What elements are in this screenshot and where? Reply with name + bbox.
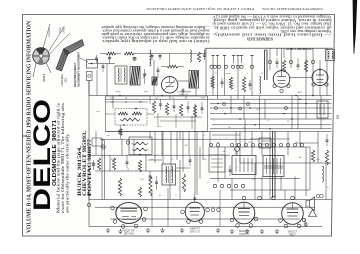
dial drum legs xyxy=(33,63,36,77)
vibrator lead xyxy=(305,147,307,196)
rectifier tube V7 xyxy=(282,203,304,225)
fuse symbol xyxy=(316,194,320,198)
electrolytic capacitor C9 xyxy=(235,147,240,152)
IF tube V2 6SK7 xyxy=(273,71,290,88)
svg-text:ADJ.: ADJ. xyxy=(65,77,68,82)
main bus wires xyxy=(89,95,332,97)
screen resistor R16 xyxy=(282,60,285,72)
mid band wires xyxy=(100,138,260,140)
AVC resistor R9 xyxy=(229,77,232,90)
wire V1 plate to T3 xyxy=(178,80,189,82)
capacitor C20 xyxy=(149,176,152,177)
grid resistor R3 xyxy=(167,65,178,68)
capacitor C24 xyxy=(187,107,190,108)
svg-text:SCHEMATIC DATA: SCHEMATIC DATA xyxy=(247,37,273,42)
wire vertical left pair xyxy=(96,70,98,96)
short link wires xyxy=(212,134,240,136)
grid capacitor C17 xyxy=(297,65,300,66)
second IF transformer box xyxy=(326,50,335,61)
rail pin xyxy=(87,203,90,206)
svg-text:Voltages measured to chassis w: Voltages measured to chassis with a VTVM… xyxy=(212,15,332,19)
svg-text:OUTPUT: OUTPUT xyxy=(239,233,249,236)
capacitor C14 xyxy=(159,56,162,57)
svg-text:10K: 10K xyxy=(201,98,205,100)
connector pin terminals xyxy=(211,54,214,56)
wire V2 to V3 xyxy=(290,77,312,79)
bypass capacitor C6 xyxy=(221,82,224,83)
field coil choke xyxy=(322,166,323,182)
T4 core lines xyxy=(264,165,283,167)
switch wafer circle xyxy=(126,141,129,144)
bus pin circles xyxy=(215,107,218,110)
output transformer T4 xyxy=(263,156,284,177)
buffer capacitor C8 xyxy=(229,170,232,171)
V6 pins xyxy=(230,218,234,222)
antenna coil T1 xyxy=(115,66,127,84)
resistor R23 xyxy=(179,104,182,116)
svg-text:(white) in one half turn of ad: (white) in one half turn of adjusting ty… xyxy=(101,39,209,43)
svg-text:Dial lamps: two No. 51. Pilot: Dial lamps: two No. 51. Pilot No. 55 — 1… xyxy=(212,22,331,26)
grid cap dots xyxy=(281,69,282,70)
enclosure top inner wire xyxy=(106,101,148,103)
callout arrow xyxy=(80,58,88,62)
svg-text:out: out xyxy=(252,178,255,181)
dial cable callout lines xyxy=(49,27,65,52)
upper mid pins row xyxy=(209,143,212,146)
svg-text:TREBLE: TREBLE xyxy=(44,73,46,82)
mid row pins xyxy=(213,184,216,187)
interstage transformer T5 xyxy=(162,164,176,185)
det tube V3 6SQ7 xyxy=(312,70,328,86)
svg-text:ALIGNMENT ADJUSTMENT: ALIGNMENT ADJUSTMENT xyxy=(76,52,80,87)
resistor R18 xyxy=(97,158,100,170)
grid resistor R13 xyxy=(118,178,121,196)
dial lamp I1 xyxy=(101,145,105,149)
capacitor C18 xyxy=(92,164,95,165)
left rail wire xyxy=(88,81,90,227)
power triangle xyxy=(309,210,317,217)
resistor R2 xyxy=(124,52,134,55)
output tube V6 xyxy=(233,202,255,224)
svg-text:1M: 1M xyxy=(184,145,187,147)
svg-text:HIGH FREQUENCY: HIGH FREQUENCY xyxy=(73,62,77,87)
audio tube V4 6SQ7 DET-AVC xyxy=(116,203,142,224)
svg-text:— Indicates lead from tone coi: — Indicates lead from tone coil assembly… xyxy=(212,32,333,36)
dial lamp pair wires xyxy=(101,140,103,200)
resistor R4 xyxy=(118,112,128,115)
svg-text:sealed lead to ground and a 4: sealed lead to ground and a 4 ohm speake… xyxy=(101,29,209,33)
svg-text:33K: 33K xyxy=(111,159,115,161)
resistor R19 xyxy=(112,158,115,170)
svg-text:47K: 47K xyxy=(110,98,114,100)
wire top bus xyxy=(140,53,206,55)
page fold tick xyxy=(23,135,28,137)
capacitor C23 xyxy=(173,106,176,107)
V4 pins xyxy=(111,206,115,210)
capacitor C19 xyxy=(126,162,129,163)
wire antenna to coil xyxy=(98,63,116,65)
enclosure inner wires xyxy=(154,116,202,118)
chassis bracket hatched upper xyxy=(64,40,85,56)
vibrator box xyxy=(209,155,225,172)
chassis bracket hatched lower xyxy=(56,49,69,71)
svg-text:Voltmeter readings may vary ±2: Voltmeter readings may vary ±20%. xyxy=(279,29,331,33)
svg-text:at speaker voltage with 12 vol: at speaker voltage with 12 volt input to… xyxy=(101,36,209,40)
svg-text:OLDSMOBILE 980171: OLDSMOBILE 980171 xyxy=(285,47,312,51)
RF coil L3 xyxy=(190,50,191,62)
oscillator coil L2 xyxy=(260,76,261,94)
grid leak R26 xyxy=(182,174,185,192)
bus junction dots xyxy=(224,113,226,115)
lower band wires xyxy=(89,199,332,201)
svg-text:are practically the same elect: are practically the same electrically. xyxy=(65,133,70,213)
volume box leads xyxy=(106,113,116,115)
coax shielded lead xyxy=(264,50,266,80)
heavy lead pair xyxy=(272,131,274,198)
V2 pins xyxy=(273,84,276,87)
resistor R6 xyxy=(120,118,140,121)
vertical wires xyxy=(112,96,114,109)
svg-text:ant: ant xyxy=(96,110,99,113)
right resistor R27 xyxy=(325,150,328,165)
gang junction node A xyxy=(134,58,136,60)
interstage resistor R25 xyxy=(149,176,152,196)
svg-text:gang: gang xyxy=(116,91,122,93)
antenna jack xyxy=(87,72,93,81)
power transformer T6 xyxy=(232,156,256,175)
IF transformer T3 hatched xyxy=(189,71,199,89)
IF amp resistor R8 xyxy=(211,76,214,89)
cathode resistor R14 xyxy=(138,187,141,197)
spark plate capacitor C1 xyxy=(102,66,105,67)
inter-tube pins xyxy=(258,196,262,200)
bypass capacitor C7 xyxy=(249,84,252,85)
svg-text:6SK7 GT: 6SK7 GT xyxy=(190,230,200,233)
svg-text:1m: 1m xyxy=(203,159,206,161)
svg-text:RECT: RECT xyxy=(289,233,296,236)
resistor R1 xyxy=(106,52,116,55)
small hatched core xyxy=(152,77,157,85)
oscillator trimmer C15 xyxy=(95,58,98,59)
resistor R22 xyxy=(165,103,168,115)
svg-text:all condenser and resistor val: all condenser and resistor values with s… xyxy=(212,25,331,29)
IF amp tube V5 xyxy=(185,202,204,221)
capacitor C25 xyxy=(201,108,204,109)
svg-text:PULLEY: PULLEY xyxy=(49,27,51,36)
svg-text:CABLE: CABLE xyxy=(63,26,66,34)
right rail resistor R15 xyxy=(311,150,314,162)
svg-text:FIRST LAYER 62 SQUARES ASSUMED: FIRST LAYER 62 SQUARES ASSUMED ORANGE xyxy=(146,7,254,11)
right rail capacitor C12 xyxy=(326,140,329,141)
svg-text:50: 50 xyxy=(335,114,340,119)
svg-text:LOW FREQ.: LOW FREQ. xyxy=(62,73,64,86)
terminal id circles xyxy=(210,65,213,68)
book spine ink mark xyxy=(353,0,358,54)
resistor R21 xyxy=(197,52,200,62)
V5 grid cap parts xyxy=(194,195,196,203)
converter tube V1 6SA7 xyxy=(162,77,178,93)
pin circles row2 xyxy=(268,60,271,63)
tuning capacitor C2 xyxy=(143,74,146,75)
plate capacitor C16 xyxy=(276,62,279,63)
coupling capacitor C3 xyxy=(157,70,160,71)
svg-text:DET-AVC: DET-AVC xyxy=(124,232,134,235)
page border frame xyxy=(23,15,335,237)
svg-text:PONTIAC 988877: PONTIAC 988877 xyxy=(88,138,93,196)
tone box cluster xyxy=(129,137,152,155)
resistor R7 xyxy=(119,129,122,136)
V7 pins xyxy=(279,219,283,223)
svg-text:DIAL: DIAL xyxy=(59,27,62,33)
resistor R24 xyxy=(193,105,196,117)
trimmer capacitor C5 xyxy=(108,58,111,59)
small box above T4 xyxy=(259,138,271,148)
resistor R20 xyxy=(138,160,141,172)
diode load resistor R10 xyxy=(242,77,245,92)
ground symbols xyxy=(106,228,110,233)
spark plate box xyxy=(317,101,328,118)
screen bypass capacitor C4 xyxy=(182,90,185,91)
V3 pins xyxy=(312,83,315,86)
rail capacitor C26 xyxy=(88,194,91,195)
left mid box xyxy=(92,138,102,146)
svg-text:52898 HYDEBOARD OLDS.: 52898 HYDEBOARD OLDS. xyxy=(261,7,323,11)
grid lead V1 xyxy=(169,54,171,67)
volume control box xyxy=(115,109,147,126)
oscillator coil T2 hatched xyxy=(130,67,140,86)
extra bottom drops xyxy=(151,190,153,227)
schematic top frame wire xyxy=(206,47,333,49)
enclosure string R28 xyxy=(152,101,155,113)
cathode resistor R17 xyxy=(304,60,307,72)
padder coil L1 xyxy=(150,50,151,66)
V5 pins xyxy=(181,210,185,214)
dial drum detail xyxy=(33,48,50,65)
capacitor C22 xyxy=(159,104,162,105)
resistor R5 xyxy=(132,112,142,115)
bias capacitor C11 xyxy=(155,182,158,183)
RF unit enclosure xyxy=(106,96,208,131)
svg-text:AVC: AVC xyxy=(298,91,303,94)
antenna input box xyxy=(87,60,98,69)
capacitor C13 xyxy=(151,56,154,57)
capacitor C21 xyxy=(203,55,206,56)
coupling capacitor C10 xyxy=(189,160,192,161)
speaker symbol xyxy=(306,197,315,211)
